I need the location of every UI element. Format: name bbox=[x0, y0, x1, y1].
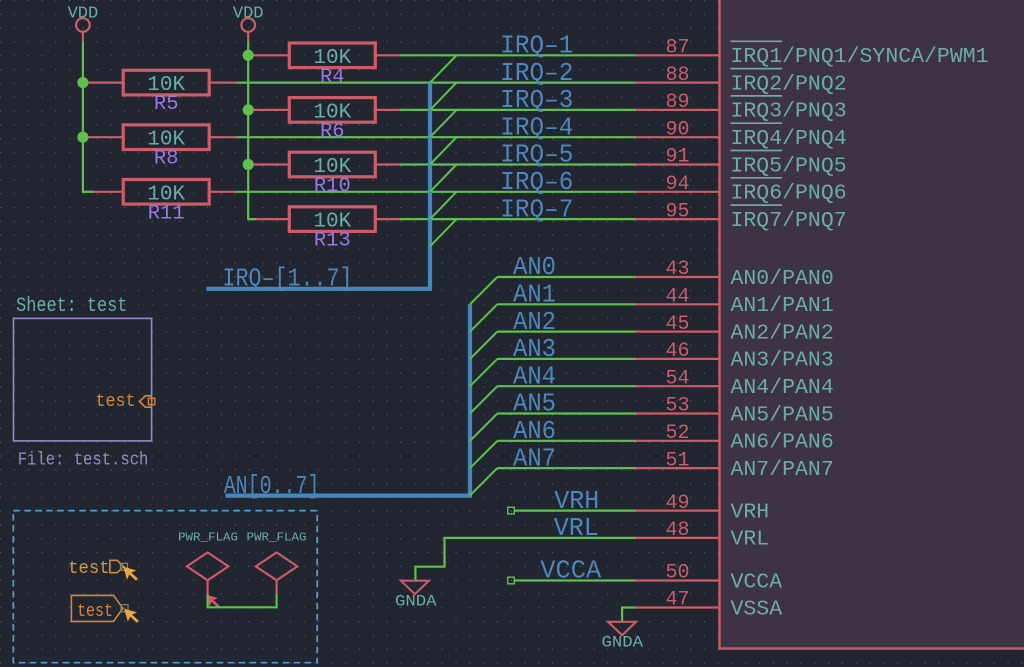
svg-text:R10: R10 bbox=[314, 175, 351, 198]
svg-text:AN6/PAN6: AN6/PAN6 bbox=[731, 431, 834, 455]
svg-text:AN1: AN1 bbox=[513, 281, 556, 310]
svg-text:VDD: VDD bbox=[233, 5, 264, 24]
svg-text:IRQ–6: IRQ–6 bbox=[500, 168, 573, 197]
svg-text:IRQ4/PNQ4: IRQ4/PNQ4 bbox=[731, 127, 847, 151]
svg-text:GNDA: GNDA bbox=[395, 592, 437, 610]
svg-text:IRQ6/PNQ6: IRQ6/PNQ6 bbox=[731, 182, 847, 206]
svg-text:44: 44 bbox=[665, 286, 689, 309]
svg-text:43: 43 bbox=[665, 258, 689, 281]
svg-text:PWR_FLAG: PWR_FLAG bbox=[247, 531, 307, 545]
svg-text:VSSA: VSSA bbox=[731, 597, 783, 621]
svg-text:IRQ2/PNQ2: IRQ2/PNQ2 bbox=[731, 72, 847, 96]
svg-text:GNDA: GNDA bbox=[602, 633, 644, 651]
svg-text:AN3: AN3 bbox=[513, 335, 556, 364]
svg-text:AN6: AN6 bbox=[513, 417, 556, 446]
svg-text:46: 46 bbox=[665, 340, 689, 363]
svg-text:45: 45 bbox=[665, 313, 689, 336]
svg-text:VRH: VRH bbox=[731, 500, 770, 524]
svg-text:95: 95 bbox=[665, 200, 689, 223]
svg-text:AN7: AN7 bbox=[513, 444, 556, 473]
svg-text:VRL: VRL bbox=[731, 528, 770, 552]
svg-text:VCCA: VCCA bbox=[731, 570, 783, 594]
svg-text:AN5/PAN5: AN5/PAN5 bbox=[731, 403, 834, 427]
svg-text:R11: R11 bbox=[148, 202, 185, 225]
svg-text:AN[0..7]: AN[0..7] bbox=[224, 472, 320, 501]
svg-text:AN5: AN5 bbox=[513, 390, 556, 419]
svg-text:89: 89 bbox=[665, 91, 689, 114]
svg-text:51: 51 bbox=[665, 449, 689, 472]
svg-text:VDD: VDD bbox=[68, 5, 99, 24]
svg-text:R8: R8 bbox=[154, 148, 179, 171]
svg-text:91: 91 bbox=[665, 146, 689, 169]
svg-text:R6: R6 bbox=[320, 120, 345, 143]
svg-text:AN0/PAN0: AN0/PAN0 bbox=[731, 267, 834, 291]
svg-text:AN4/PAN4: AN4/PAN4 bbox=[731, 376, 834, 400]
svg-text:R5: R5 bbox=[154, 93, 179, 116]
svg-text:File: test.sch: File: test.sch bbox=[18, 450, 149, 471]
svg-text:R13: R13 bbox=[314, 230, 351, 253]
svg-text:90: 90 bbox=[665, 118, 689, 141]
svg-text:54: 54 bbox=[665, 367, 689, 390]
svg-text:94: 94 bbox=[665, 173, 689, 196]
svg-text:53: 53 bbox=[665, 395, 689, 418]
svg-text:IRQ–5: IRQ–5 bbox=[500, 141, 573, 170]
svg-text:87: 87 bbox=[665, 37, 689, 60]
svg-text:test: test bbox=[96, 392, 136, 412]
svg-text:test: test bbox=[77, 602, 113, 622]
svg-text:IRQ5/PNQ5: IRQ5/PNQ5 bbox=[731, 154, 847, 178]
svg-text:AN1/PAN1: AN1/PAN1 bbox=[731, 294, 834, 318]
svg-text:VCCA: VCCA bbox=[540, 557, 602, 586]
svg-text:52: 52 bbox=[665, 422, 689, 445]
svg-text:88: 88 bbox=[665, 64, 689, 87]
svg-text:PWR_FLAG: PWR_FLAG bbox=[178, 531, 238, 545]
svg-text:AN4: AN4 bbox=[513, 362, 556, 391]
svg-text:AN0: AN0 bbox=[513, 253, 556, 282]
svg-text:test: test bbox=[68, 559, 110, 579]
svg-text:IRQ–2: IRQ–2 bbox=[500, 59, 573, 88]
svg-text:AN7/PAN7: AN7/PAN7 bbox=[731, 458, 834, 482]
svg-text:IRQ–3: IRQ–3 bbox=[500, 86, 573, 115]
svg-text:IRQ3/PNQ3: IRQ3/PNQ3 bbox=[731, 100, 847, 124]
svg-text:IRQ1/PNQ1/SYNCA/PWM1: IRQ1/PNQ1/SYNCA/PWM1 bbox=[731, 45, 989, 69]
svg-text:IRQ–4: IRQ–4 bbox=[500, 113, 573, 142]
svg-text:AN2/PAN2: AN2/PAN2 bbox=[731, 321, 834, 345]
svg-text:AN2: AN2 bbox=[513, 308, 556, 337]
svg-text:Sheet: test: Sheet: test bbox=[16, 295, 127, 318]
svg-text:R4: R4 bbox=[320, 66, 345, 89]
svg-text:IRQ7/PNQ7: IRQ7/PNQ7 bbox=[731, 209, 847, 233]
svg-text:AN3/PAN3: AN3/PAN3 bbox=[731, 349, 834, 373]
svg-text:IRQ–[1..7]: IRQ–[1..7] bbox=[223, 264, 353, 293]
svg-text:VRH: VRH bbox=[554, 487, 599, 516]
svg-text:IRQ–1: IRQ–1 bbox=[500, 32, 573, 61]
svg-text:IRQ–7: IRQ–7 bbox=[500, 195, 573, 224]
